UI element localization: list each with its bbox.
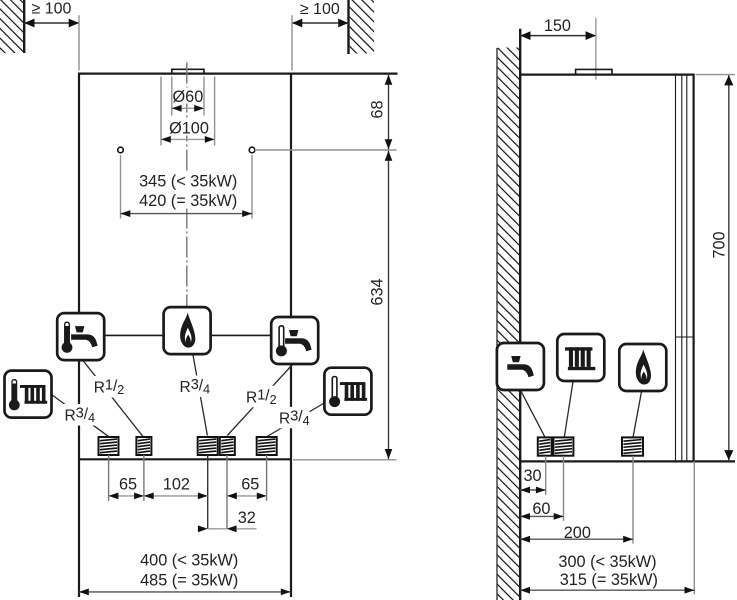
flue centerline dash-dot xyxy=(186,63,188,307)
extension of bottom edge toward 634 dimension xyxy=(293,459,397,461)
side connection 3 gas xyxy=(622,437,643,455)
svg-text:300 (< 35kW): 300 (< 35kW) xyxy=(558,553,656,571)
dimension >=100 right arrow xyxy=(292,22,349,24)
dimension arrow 300/315 xyxy=(520,589,694,591)
svg-text:60: 60 xyxy=(532,500,550,518)
boiler side top edge xyxy=(519,73,694,75)
leader line DHW right to connection 4 xyxy=(227,365,292,436)
leader line flame symbol to connection xyxy=(633,392,642,438)
leader line heating return to connection 5 xyxy=(267,404,324,437)
symbol box tap side view xyxy=(497,343,544,390)
leader line DHW left to connection 2 xyxy=(83,361,143,437)
label R1/2 right xyxy=(244,386,277,408)
dimension 68 vertical xyxy=(388,75,390,149)
extension lines below connections xyxy=(108,455,110,501)
text diameter 60 xyxy=(173,88,203,104)
symbol box gas flame xyxy=(164,307,211,354)
svg-text:Ø60: Ø60 xyxy=(173,88,204,106)
pipe connection 2 DHW outlet xyxy=(136,437,151,455)
mounting hole right xyxy=(249,147,255,153)
symbol box flame side view xyxy=(619,344,666,391)
svg-text:485 (= 35kW): 485 (= 35kW) xyxy=(140,572,238,590)
dimension arrow 200 xyxy=(520,538,633,540)
leader line heating flow to connection 1 xyxy=(52,395,109,437)
wall hatch top-left xyxy=(0,0,24,53)
wall inner boundary line side view xyxy=(496,48,498,600)
side connection 1 tap xyxy=(538,437,552,455)
dimension 634 vertical xyxy=(388,151,390,459)
dimension 700 vertical xyxy=(728,75,730,460)
panel joint tick xyxy=(676,336,695,338)
svg-text:400 (< 35kW): 400 (< 35kW) xyxy=(140,551,238,569)
dimension arrow diameter 100 xyxy=(161,138,215,140)
wall edge line top-left xyxy=(23,0,25,53)
svg-text:634: 634 xyxy=(369,278,387,305)
svg-text:32: 32 xyxy=(238,509,256,527)
svg-text:65: 65 xyxy=(119,475,137,493)
label R1/2 left xyxy=(91,376,124,398)
extension lines flue diameter 60 xyxy=(171,77,173,116)
dimension arrow 150 xyxy=(520,35,596,37)
dimension arrow 345/420 hole spacing xyxy=(121,213,253,215)
svg-text:102: 102 xyxy=(163,475,190,493)
dimension arrow 65 left xyxy=(109,495,144,497)
extension lines flue diameter 100 xyxy=(160,77,162,146)
text diameter 100 xyxy=(168,119,211,136)
wall hatch side view xyxy=(498,48,520,600)
svg-text:420 (= 35kW): 420 (= 35kW) xyxy=(139,192,237,210)
pipe connection 4 cold water inlet xyxy=(220,437,235,455)
leader line gas to connection 3 xyxy=(193,355,207,436)
pipe connection 5 heating return xyxy=(257,437,277,455)
symbol box heating flow radiator with filled thermometer xyxy=(5,371,52,418)
dimension 32 with outside arrows xyxy=(208,528,227,530)
extension lines below mounting holes xyxy=(120,155,122,219)
boiler side bottom edge xyxy=(519,460,735,462)
dimension arrow 400/485 overall width xyxy=(79,591,291,593)
label R3/4 right xyxy=(277,407,310,429)
symbol box radiator side view xyxy=(557,334,604,381)
dimension arrow 30 xyxy=(520,489,546,491)
leader line tap symbol to connection xyxy=(521,390,546,437)
leader line radiator symbol to connection xyxy=(564,382,573,438)
svg-text:Ø100: Ø100 xyxy=(169,120,209,138)
wall edge line side view xyxy=(519,29,521,600)
dimension arrow 60 xyxy=(520,515,563,517)
dimension >=100 left arrow xyxy=(24,22,79,24)
svg-text:65: 65 xyxy=(241,475,259,493)
wall hatch top-right of front view xyxy=(350,0,375,54)
svg-text:30: 30 xyxy=(523,467,541,485)
extension lines below side connections xyxy=(545,456,547,495)
dimension arrow 102 xyxy=(144,495,208,497)
boiler front bottom edge xyxy=(79,458,291,460)
pipe connection 1 heating flow xyxy=(99,437,119,455)
boiler side right edge xyxy=(692,74,694,462)
svg-text:345 (< 35kW): 345 (< 35kW) xyxy=(139,172,237,190)
extension line top of side view to 700 dimension xyxy=(696,74,736,76)
dimension arrow diameter 60 xyxy=(172,107,204,109)
wall edge line top-right of front view xyxy=(347,0,349,54)
svg-text:≥ 100: ≥ 100 xyxy=(300,1,340,18)
svg-text:150: 150 xyxy=(544,17,571,35)
extension line right boiler edge above top xyxy=(291,15,293,70)
side connection 2 radiator xyxy=(553,437,573,455)
symbol box heating return radiator with outline thermometer xyxy=(324,368,371,415)
text 345 (< 35kW) xyxy=(138,171,238,209)
extension line from right hole to 68/634 dimension xyxy=(255,149,397,151)
label R3/4 center xyxy=(177,376,210,398)
symbol box cold water tap with outline thermometer xyxy=(271,317,318,364)
flue collar front view xyxy=(172,69,204,73)
svg-text:≥ 100: ≥ 100 xyxy=(32,1,72,18)
boiler front right edge xyxy=(290,74,292,597)
svg-text:68: 68 xyxy=(369,100,387,118)
pipe connection line between symbol boxes xyxy=(104,334,271,336)
svg-text:700: 700 xyxy=(710,231,728,258)
boiler front top edge xyxy=(78,72,398,74)
dimension arrow 65 right xyxy=(227,495,267,497)
extension line left boiler edge above top xyxy=(78,15,80,70)
flue centerline side view xyxy=(595,18,597,80)
svg-text:315 (= 35kW): 315 (= 35kW) xyxy=(560,571,658,589)
pipe connection 3 gas xyxy=(198,437,218,455)
boiler front left edge xyxy=(78,74,80,597)
boiler front panel lines side view xyxy=(675,75,677,462)
flue collar side view xyxy=(576,69,612,74)
symbol box hot water tap with filled thermometer xyxy=(57,313,104,360)
mounting hole left xyxy=(118,147,124,153)
label R3/4 left xyxy=(62,404,95,426)
